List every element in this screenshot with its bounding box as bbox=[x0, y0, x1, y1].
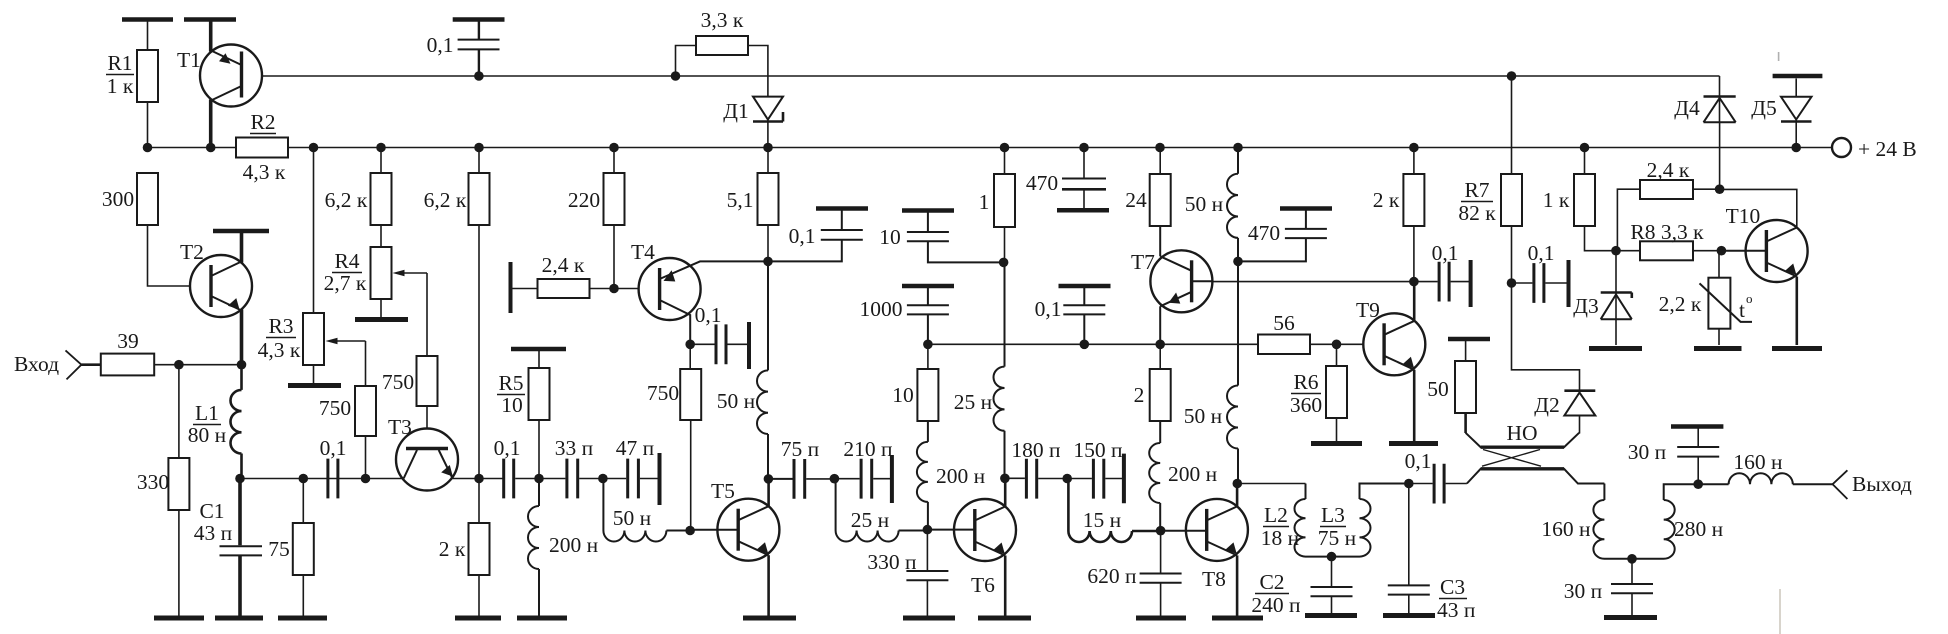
arrow T4 upper bbox=[664, 270, 676, 281]
node T5 base bbox=[685, 526, 695, 536]
screen wall 0,1 T9 bbox=[1469, 260, 1473, 307]
node rail2 x768 bbox=[763, 143, 773, 153]
node 15 n tap bbox=[1062, 474, 1072, 484]
capacitor 0,1 input stage bbox=[328, 459, 338, 499]
inductor 200 n T8 base bbox=[1149, 421, 1160, 531]
wire T10 collector bbox=[1720, 189, 1797, 227]
svg-text:T7: T7 bbox=[1131, 250, 1155, 274]
capacitor 470 second bbox=[1280, 206, 1332, 211]
inductor 160 n horizontal bbox=[1698, 473, 1832, 484]
wire 75 ground bbox=[302, 575, 304, 616]
node rail2 x1084 bbox=[1079, 143, 1089, 153]
capacitor 150 p bbox=[1093, 459, 1103, 499]
terminal +24 V bbox=[1832, 138, 1851, 157]
wire 0,1 to R5 node bbox=[515, 478, 565, 480]
resistor 6,2 k second bbox=[469, 173, 490, 225]
inductor L3 bbox=[1332, 484, 1409, 557]
capacitor 0,1 output bbox=[1409, 483, 1433, 485]
wire T5 collector bbox=[767, 479, 770, 506]
coupler HO cross bbox=[1482, 450, 1541, 467]
wire R7 to D2 bbox=[1512, 283, 1580, 416]
wire 75 stem bbox=[302, 479, 304, 524]
wire 330 stem bbox=[178, 365, 180, 458]
transistor T10 bbox=[1746, 220, 1808, 282]
svg-text:330 п: 330 п bbox=[867, 550, 916, 574]
ground 75 bbox=[278, 616, 327, 621]
svg-text:R4: R4 bbox=[334, 249, 359, 273]
ground 330p bbox=[903, 616, 955, 621]
arrow T6 emitter bbox=[993, 543, 1005, 554]
svg-text:0,1: 0,1 bbox=[1405, 449, 1432, 473]
wire T9 collector bbox=[1413, 282, 1416, 321]
svg-text:43 п: 43 п bbox=[1437, 598, 1475, 622]
svg-text:150 п: 150 п bbox=[1073, 438, 1122, 462]
inductor 50 n T5 collector bbox=[757, 261, 768, 479]
wire 33p to node bbox=[579, 478, 626, 480]
svg-text:3,3 к: 3,3 к bbox=[701, 8, 744, 32]
node output bbox=[1693, 479, 1703, 489]
resistor 750b bbox=[417, 356, 438, 406]
arrow T5 emitter bbox=[757, 542, 769, 553]
node T8 collector tap bbox=[1233, 479, 1243, 489]
wire rail to 24 bbox=[1159, 148, 1161, 175]
arrow T10 emitter bbox=[1785, 264, 1797, 275]
wire T3 right bbox=[453, 478, 504, 480]
resistor R4 trimmer bbox=[371, 247, 392, 299]
transistor T4 bbox=[639, 258, 701, 320]
ground C3 bbox=[1383, 613, 1435, 618]
wire T10 emitter bbox=[1796, 277, 1799, 346]
svg-text:24: 24 bbox=[1125, 188, 1147, 212]
chassis bar over R1 bbox=[122, 17, 173, 22]
svg-text:1 к: 1 к bbox=[1543, 188, 1570, 212]
transistor T9 bbox=[1363, 313, 1425, 375]
svg-text:6,2 к: 6,2 к bbox=[424, 188, 467, 212]
svg-text:750: 750 bbox=[319, 396, 351, 420]
svg-text:75: 75 bbox=[268, 537, 290, 561]
resistor R8 bbox=[1640, 241, 1693, 260]
svg-text:6,2 к: 6,2 к bbox=[325, 188, 368, 212]
transistor T1 bbox=[200, 45, 262, 107]
wire top rail +24V feed bbox=[242, 75, 1720, 77]
transistor T5 bbox=[717, 499, 779, 561]
arrow T8 emitter bbox=[1225, 542, 1237, 553]
svg-text:Д4: Д4 bbox=[1674, 96, 1700, 120]
chassis bar over T1 bbox=[184, 17, 236, 22]
node R5 bbox=[534, 474, 544, 484]
wire R4 to ground bbox=[380, 299, 382, 317]
resistor 5,1 bbox=[758, 173, 779, 225]
wire 750b to T3 base bbox=[426, 406, 428, 447]
svg-text:200 н: 200 н bbox=[936, 464, 985, 488]
svg-text:Д1: Д1 bbox=[723, 99, 748, 123]
capacitor C1 bbox=[220, 546, 263, 555]
svg-text:43 п: 43 п bbox=[194, 521, 232, 545]
svg-text:50 н: 50 н bbox=[613, 506, 651, 530]
arrow T2 emitter bbox=[228, 298, 240, 309]
resistor 75 bbox=[293, 523, 314, 575]
svg-text:T2: T2 bbox=[180, 240, 204, 264]
wire T2 collector stem bbox=[240, 233, 244, 263]
svg-text:1000: 1000 bbox=[860, 297, 903, 321]
node rail2 x313 bbox=[309, 143, 319, 153]
node R6 bbox=[1332, 340, 1342, 350]
inductor 50 n upper bbox=[1227, 148, 1238, 262]
capacitor 210 p bbox=[836, 478, 860, 480]
wire rail to 6,2k second bbox=[478, 148, 480, 174]
svg-text:200 н: 200 н bbox=[549, 533, 598, 557]
chassis bar over T2 bbox=[213, 229, 269, 234]
arrow T1 emitter bbox=[219, 53, 231, 64]
svg-text:Д5: Д5 bbox=[1751, 96, 1776, 120]
svg-text:C1: C1 bbox=[199, 499, 224, 523]
diode D3 zener bbox=[1615, 251, 1617, 320]
wire T7 base to T9 node bbox=[1213, 281, 1414, 283]
svg-text:620 п: 620 п bbox=[1087, 564, 1136, 588]
output connector bbox=[1833, 470, 1848, 499]
node T2 emitter bbox=[237, 360, 247, 370]
svg-text:750: 750 bbox=[382, 370, 414, 394]
svg-text:75 н: 75 н bbox=[1318, 526, 1356, 550]
svg-text:25 н: 25 н bbox=[851, 508, 889, 532]
chassis bar over R5 bbox=[511, 347, 566, 352]
resistor 1 bbox=[994, 174, 1015, 227]
diode D5 bbox=[1778, 52, 1780, 61]
resistor R5 bbox=[529, 368, 550, 420]
ground 30p bottom bbox=[1604, 615, 1657, 620]
svg-text:T6: T6 bbox=[971, 573, 995, 597]
capacitor 1000 bbox=[902, 284, 954, 289]
svg-text:T8: T8 bbox=[1202, 567, 1226, 591]
svg-text:0,1: 0,1 bbox=[427, 33, 454, 57]
node rail2 x479 bbox=[474, 143, 484, 153]
wire 300 to T2 base bbox=[148, 225, 212, 286]
svg-text:2,7 к: 2,7 к bbox=[324, 271, 367, 295]
node before 0,1 bbox=[299, 474, 309, 484]
resistor 39 bbox=[101, 354, 154, 376]
svg-text:2,4 к: 2,4 к bbox=[542, 253, 585, 277]
node rail2 x1414 bbox=[1409, 143, 1419, 153]
capacitor 0,1 T4 bypass bbox=[816, 206, 868, 211]
svg-text:82 к: 82 к bbox=[1458, 201, 1496, 225]
ground 330 bbox=[154, 616, 204, 621]
screen wall 150p bbox=[1122, 454, 1126, 504]
node 30p bottom bbox=[1627, 554, 1637, 564]
transistor T7 bbox=[1150, 250, 1212, 312]
svg-text:330: 330 bbox=[137, 470, 169, 494]
capacitor 75 p bbox=[768, 478, 792, 480]
inductor 25 n vertical bbox=[994, 262, 1005, 478]
resistor 750c bbox=[680, 369, 701, 420]
svg-text:C3: C3 bbox=[1440, 575, 1465, 599]
svg-text:4,3 к: 4,3 к bbox=[258, 338, 301, 362]
svg-text:Выход: Выход bbox=[1852, 472, 1912, 496]
ground R3 bbox=[288, 383, 341, 388]
node bias junction bbox=[1611, 246, 1621, 256]
screen wall 210p bbox=[890, 455, 894, 503]
svg-text:25 н: 25 н bbox=[954, 390, 992, 414]
svg-text:470: 470 bbox=[1248, 221, 1280, 245]
node rail2 x381 bbox=[376, 143, 386, 153]
svg-text:T5: T5 bbox=[711, 479, 735, 503]
inductor 200 n T6 base bbox=[917, 421, 928, 530]
svg-text:2 к: 2 к bbox=[439, 537, 466, 561]
coupler HO top line bbox=[1466, 433, 1580, 447]
resistor R7 bbox=[1511, 76, 1513, 174]
svg-text:Д3: Д3 bbox=[1573, 294, 1598, 318]
capacitor C2 bbox=[1331, 557, 1333, 587]
svg-text:2: 2 bbox=[1134, 383, 1145, 407]
inductor 160 n vertical bbox=[1593, 484, 1632, 559]
input connector bbox=[66, 350, 82, 379]
svg-text:4,3 к: 4,3 к bbox=[243, 160, 286, 184]
wire T7 emitter bbox=[1159, 306, 1161, 344]
svg-text:50 н: 50 н bbox=[1185, 192, 1223, 216]
wire R4 wiper to 750b bbox=[426, 273, 428, 356]
svg-text:0,1: 0,1 bbox=[1528, 241, 1555, 265]
node 470 second bbox=[1233, 257, 1243, 267]
wire T8 emitter bbox=[1236, 555, 1239, 615]
svg-text:80 н: 80 н bbox=[188, 423, 226, 447]
node 10 cap to 1 line bbox=[999, 258, 1009, 268]
node rail2 x1238 bbox=[1233, 143, 1243, 153]
svg-text:R8 3,3 к: R8 3,3 к bbox=[1630, 220, 1704, 244]
node 1000 cap bbox=[923, 340, 933, 350]
capacitor 0,1 second bbox=[504, 459, 514, 499]
svg-text:0,1: 0,1 bbox=[494, 436, 521, 460]
wire C1 stem bbox=[238, 479, 242, 546]
resistor 10 bbox=[927, 344, 929, 369]
screen wall 0,1 T4 bbox=[747, 322, 751, 369]
svg-text:R7: R7 bbox=[1464, 178, 1489, 202]
node T7 emitter bus bbox=[1155, 340, 1165, 350]
capacitor 30 p bottom bbox=[1631, 559, 1633, 584]
svg-text:160 н: 160 н bbox=[1733, 450, 1782, 474]
wire 2k ground bbox=[478, 575, 480, 616]
node 75p out bbox=[830, 474, 840, 484]
resistor R3 trimmer bbox=[303, 313, 324, 365]
svg-text:200 н: 200 н bbox=[1168, 462, 1217, 486]
resistor 2 k second bbox=[1413, 148, 1415, 175]
wire 47p to screen bbox=[640, 478, 658, 480]
node T9 collector bbox=[1409, 277, 1419, 287]
svg-text:C2: C2 bbox=[1259, 570, 1284, 594]
svg-text:0,1: 0,1 bbox=[1035, 297, 1062, 321]
wire 330 to ground bbox=[178, 510, 180, 616]
wire R5 stem bbox=[538, 420, 540, 479]
resistor R2 bbox=[236, 138, 288, 158]
node T6 collector bbox=[1000, 474, 1010, 484]
capacitor 620 p bbox=[1160, 531, 1162, 573]
transistor T6 bbox=[954, 499, 1016, 561]
svg-text:180 п: 180 п bbox=[1011, 438, 1060, 462]
svg-text:R5: R5 bbox=[498, 371, 523, 395]
wire rail to 220 bbox=[613, 148, 615, 174]
diode D2 bbox=[1564, 389, 1595, 392]
svg-text:2,4 к: 2,4 к bbox=[1647, 158, 1690, 182]
svg-text:+ 24 В: + 24 В bbox=[1858, 137, 1917, 161]
wire wall to 2,4k bbox=[511, 288, 538, 290]
wire T5 emitter bbox=[767, 555, 770, 615]
svg-text:240 п: 240 п bbox=[1251, 593, 1300, 617]
capacitor 0,1 bus bypass bbox=[1059, 284, 1111, 289]
R4 wiper arrow bbox=[397, 272, 427, 274]
resistor 3,3 k bbox=[676, 46, 697, 77]
wire 6,2k to R4 bbox=[380, 225, 382, 247]
coupler HO bottom line bbox=[1467, 469, 1605, 484]
node T8 base bbox=[1156, 526, 1166, 536]
svg-text:0,1: 0,1 bbox=[1432, 241, 1459, 265]
wire R1 bottom bbox=[147, 102, 149, 148]
svg-text:220: 220 bbox=[568, 188, 600, 212]
svg-text:39: 39 bbox=[117, 329, 139, 353]
node 2,4k right bbox=[1715, 184, 1725, 194]
svg-text:50 н: 50 н bbox=[1184, 404, 1222, 428]
resistor 330 bbox=[168, 458, 189, 510]
node 0,1 bus bbox=[1080, 340, 1090, 350]
node rail2 x147 bbox=[143, 143, 153, 153]
wire R3 to ground bbox=[313, 365, 315, 383]
wire 56 to T9 base bbox=[1310, 343, 1363, 345]
resistor 220 bbox=[604, 173, 625, 225]
resistor 2,4 k bbox=[538, 279, 590, 298]
svg-text:750: 750 bbox=[647, 381, 679, 405]
node R8 right bbox=[1717, 246, 1727, 256]
capacitor 0,1 T4 emitter bbox=[690, 343, 714, 345]
ground C2 bbox=[1305, 613, 1357, 618]
node T6 base bbox=[923, 525, 933, 535]
node rail2 x1004 bbox=[1000, 143, 1010, 153]
node rail2 x1160 bbox=[1155, 143, 1165, 153]
svg-text:2 к: 2 к bbox=[1373, 188, 1400, 212]
inductor 25 n horizontal bbox=[836, 479, 928, 542]
svg-text:300: 300 bbox=[102, 187, 134, 211]
wire T2 emitter stem bbox=[240, 310, 244, 365]
wire T9 emitter bbox=[1413, 370, 1416, 441]
svg-text:360: 360 bbox=[1290, 393, 1322, 417]
svg-text:T10: T10 bbox=[1726, 204, 1761, 228]
wire T8 collector bbox=[1236, 484, 1239, 507]
wire 750a to signal node bbox=[365, 436, 367, 479]
wire input to 39 bbox=[81, 363, 100, 366]
resistor 2,4 k second bbox=[1616, 189, 1640, 251]
capacitor 330 p bbox=[926, 530, 928, 571]
svg-text:Вход: Вход bbox=[14, 352, 59, 376]
svg-text:33 п: 33 п bbox=[555, 436, 593, 460]
svg-text:о: о bbox=[1746, 291, 1753, 306]
svg-text:30 п: 30 п bbox=[1564, 579, 1602, 603]
arrow T7 emitter bbox=[1169, 293, 1181, 304]
resistor R1 bbox=[137, 50, 158, 102]
svg-text:75 п: 75 п bbox=[781, 437, 819, 461]
inductor L2 bbox=[1295, 484, 1332, 557]
inductor 50 n lower bbox=[1227, 261, 1238, 483]
wire R6 ground bbox=[1336, 418, 1338, 441]
svg-text:470: 470 bbox=[1026, 171, 1058, 195]
wire 6,2k second down bbox=[478, 225, 480, 479]
capacitor 30 p top bbox=[1671, 424, 1723, 429]
wire main supply rail bbox=[148, 147, 1833, 149]
transistor T2 bbox=[190, 255, 252, 317]
capacitor 0,1 top bypass bbox=[453, 17, 505, 22]
screen wall 2,4k bbox=[509, 262, 513, 313]
svg-text:160 н: 160 н bbox=[1541, 517, 1590, 541]
node T5 collector bbox=[764, 474, 774, 484]
svg-text:R3: R3 bbox=[268, 314, 293, 338]
wire node to 750c bbox=[689, 344, 691, 369]
wire T6 emitter bbox=[1004, 556, 1007, 616]
capacitor 0,1 T9 out bbox=[1414, 281, 1438, 283]
svg-text:t: t bbox=[1739, 298, 1745, 322]
diode D1 zener bbox=[753, 97, 783, 120]
svg-text:280 н: 280 н bbox=[1674, 517, 1723, 541]
node 50n tap bbox=[598, 474, 608, 484]
ground T10 bbox=[1772, 346, 1822, 351]
svg-text:1: 1 bbox=[979, 190, 990, 214]
wire R3 wiper to 750a bbox=[365, 341, 367, 386]
svg-text:210 п: 210 п bbox=[843, 437, 892, 461]
svg-text:18 н: 18 н bbox=[1261, 526, 1299, 550]
svg-text:30 п: 30 п bbox=[1628, 440, 1666, 464]
wire node to 2k bbox=[478, 479, 480, 524]
resistor 750a bbox=[355, 386, 376, 436]
svg-text:T4: T4 bbox=[631, 240, 655, 264]
node T4 emitter bbox=[685, 340, 695, 350]
node T4 collector bbox=[763, 257, 773, 267]
screen wall 0,1 R7 bbox=[1567, 260, 1571, 307]
wire 39 to L1 bbox=[154, 364, 241, 366]
inductor 280 n bbox=[1632, 484, 1698, 559]
svg-text:10: 10 bbox=[892, 383, 914, 407]
svg-text:10: 10 bbox=[879, 225, 901, 249]
resistor 1 k bbox=[1584, 148, 1586, 175]
node 39/330 bbox=[174, 360, 184, 370]
wire R1 top stem bbox=[147, 22, 149, 51]
resistor 50 coupler bbox=[1448, 337, 1490, 342]
node rail2 x1584 bbox=[1580, 143, 1590, 153]
svg-text:T9: T9 bbox=[1356, 298, 1380, 322]
wire 750c to T5 base bbox=[690, 420, 692, 531]
wire T7 collector bbox=[1159, 226, 1161, 256]
svg-text:2,2 к: 2,2 к bbox=[1659, 292, 1702, 316]
node top rail x1511 bbox=[1507, 71, 1517, 81]
svg-text:T3: T3 bbox=[388, 415, 412, 439]
transistor T8 bbox=[1186, 499, 1248, 561]
svg-text:R2: R2 bbox=[250, 110, 275, 134]
node rail2 x211 bbox=[206, 143, 216, 153]
wire rail to R3 bbox=[313, 148, 315, 314]
svg-text:47 п: 47 п bbox=[616, 436, 654, 460]
svg-text:10: 10 bbox=[501, 393, 523, 417]
svg-text:НО: НО bbox=[1506, 421, 1537, 445]
node L2 L3 junction bbox=[1327, 552, 1337, 562]
node top rail x479 bbox=[474, 71, 484, 81]
resistor R6 bbox=[1336, 344, 1338, 366]
transistor T3 bbox=[396, 429, 458, 491]
node rail2 x1796 bbox=[1791, 143, 1801, 153]
wire rail to 5,1 bbox=[767, 148, 769, 174]
screen wall 47p bbox=[658, 453, 662, 505]
ground T6 bbox=[978, 616, 1031, 621]
node 750a bottom bbox=[361, 474, 371, 484]
capacitor 470 first bbox=[1083, 148, 1085, 179]
wire R5 top bbox=[538, 351, 540, 368]
capacitor 180 p bbox=[1005, 477, 1025, 479]
arrow T3 emitter bbox=[441, 465, 453, 477]
resistor 2 k bbox=[469, 523, 490, 575]
ground T9 bbox=[1389, 441, 1438, 446]
capacitor 0,1 R7 bbox=[1512, 282, 1533, 284]
